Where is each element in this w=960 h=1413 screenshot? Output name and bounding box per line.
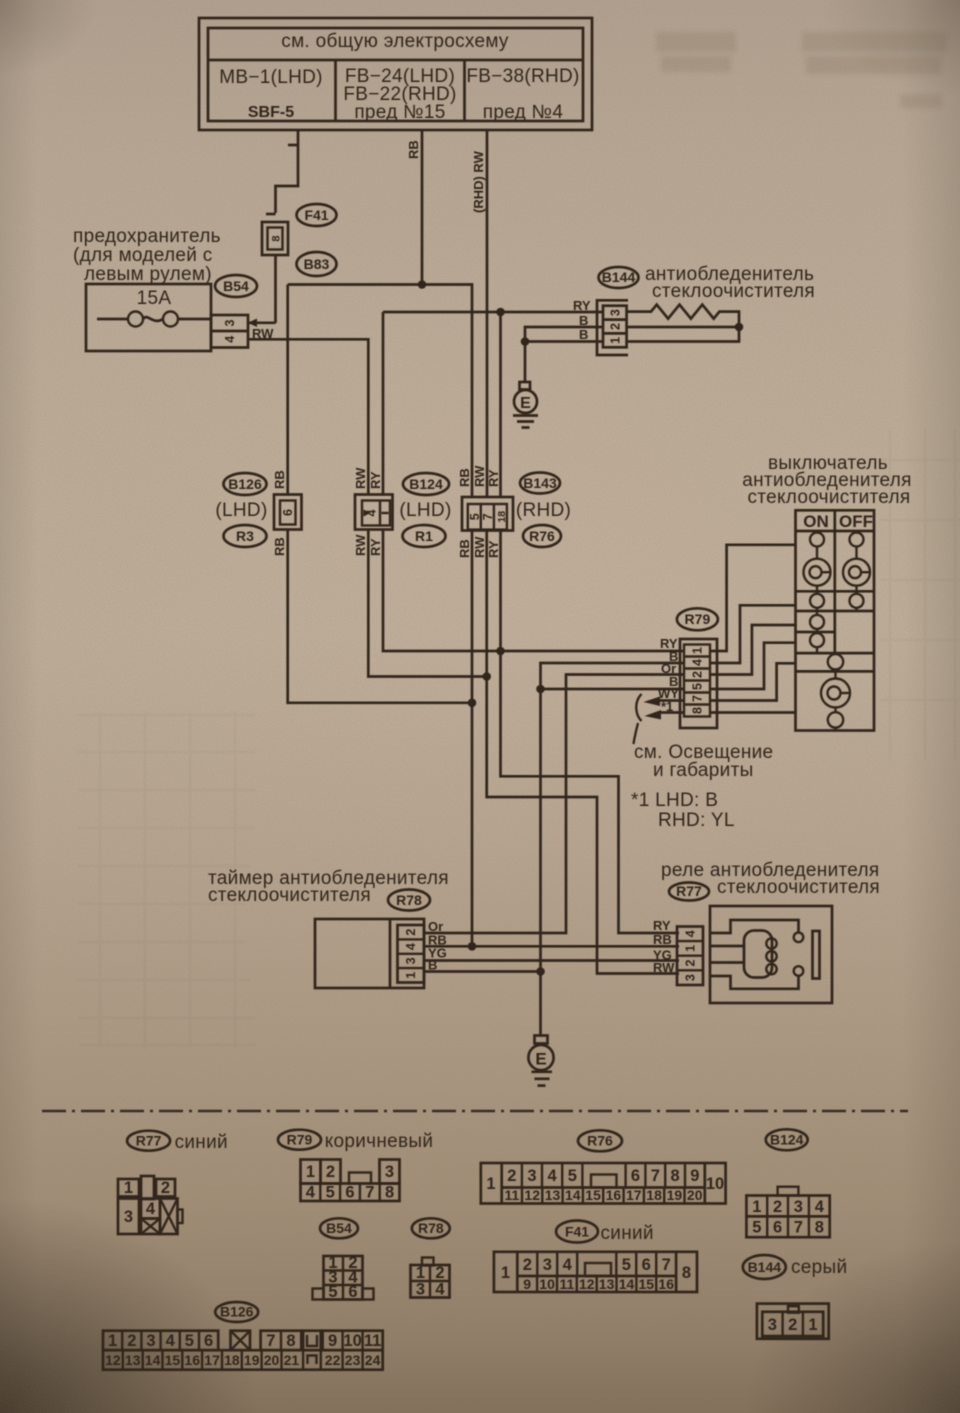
svg-text:RHD: YL: RHD: YL [658, 810, 735, 831]
svg-text:B144: B144 [602, 269, 636, 285]
svg-text:9: 9 [690, 1167, 699, 1185]
svg-text:5: 5 [185, 1332, 194, 1350]
svg-text:R78: R78 [418, 1220, 444, 1236]
svg-text:10: 10 [539, 1276, 555, 1292]
connector B124 pins [353, 467, 393, 556]
connector oval R3 [224, 525, 267, 547]
svg-text:3: 3 [608, 309, 622, 316]
svg-text:1: 1 [808, 1316, 817, 1334]
svg-text:(RHD): (RHD) [516, 500, 571, 521]
svg-text:см. общую электросхему: см. общую электросхему [281, 31, 509, 52]
connector oval B83 [297, 252, 337, 276]
svg-text:RB: RB [272, 537, 287, 556]
connector oval R78 [388, 890, 430, 911]
svg-text:F41: F41 [565, 1224, 589, 1240]
svg-text:RB: RB [272, 470, 287, 489]
svg-text:R79: R79 [685, 611, 711, 627]
svg-text:13: 13 [599, 1276, 615, 1292]
svg-text:RY: RY [573, 298, 591, 313]
svg-text:11: 11 [559, 1276, 574, 1292]
svg-text:ON: ON [803, 512, 829, 531]
wire R79 pin4 B down [541, 663, 685, 689]
svg-text:7: 7 [651, 1167, 660, 1185]
svg-text:R79: R79 [287, 1132, 313, 1148]
svg-text:8: 8 [691, 707, 705, 714]
svg-text:1: 1 [486, 1175, 495, 1193]
svg-text:13: 13 [545, 1187, 561, 1203]
svg-text:RB: RB [457, 539, 472, 558]
svg-text:1: 1 [306, 1163, 315, 1181]
svg-text:12: 12 [524, 1187, 540, 1203]
svg-text:1: 1 [691, 647, 705, 654]
svg-text:3: 3 [223, 319, 237, 326]
svg-text:4: 4 [563, 1256, 573, 1274]
svg-text:B143: B143 [523, 475, 557, 491]
svg-text:RY: RY [653, 918, 671, 933]
connector oval B143 [520, 473, 560, 494]
connector B143 pins [457, 465, 513, 558]
connector oval B126 (legend) [215, 1302, 258, 1322]
svg-text:11: 11 [504, 1187, 519, 1203]
svg-text:21: 21 [284, 1352, 300, 1368]
svg-text:B144: B144 [748, 1259, 782, 1275]
svg-text:6: 6 [281, 509, 295, 516]
wiper deicer title [645, 264, 815, 302]
ground E lower [528, 1036, 553, 1086]
svg-text:3: 3 [684, 974, 698, 981]
svg-text:коричневый: коричневый [325, 1131, 434, 1152]
svg-text:RY: RY [368, 538, 383, 556]
svg-text:(RHD) RW: (RHD) RW [471, 150, 486, 213]
svg-text:8: 8 [385, 1184, 394, 1202]
switch contacts ON column [804, 533, 831, 654]
svg-text:9: 9 [328, 1332, 337, 1350]
connector oval B124 (legend) [766, 1129, 808, 1150]
svg-text:B124: B124 [409, 476, 443, 492]
svg-text:15A: 15A [137, 288, 172, 309]
connector oval R76 [523, 525, 561, 547]
svg-text:левым рулем): левым рулем) [84, 264, 212, 285]
svg-text:RB: RB [653, 932, 672, 947]
svg-text:15: 15 [165, 1352, 181, 1368]
connector B126 pin 6 [272, 470, 302, 556]
svg-text:B126: B126 [228, 476, 262, 492]
svg-text:RW: RW [472, 536, 487, 558]
svg-text:16: 16 [184, 1352, 200, 1368]
connector B124 pinout [746, 1187, 829, 1238]
svg-text:B54: B54 [326, 1220, 352, 1236]
svg-text:RY: RY [486, 540, 501, 558]
svg-text:синий: синий [601, 1223, 654, 1244]
svg-text:3: 3 [543, 1256, 552, 1274]
circuit breaker (F41/B83) [262, 222, 288, 323]
connector oval R79 [677, 608, 718, 630]
connector oval B124 [403, 473, 449, 495]
svg-text:4: 4 [223, 336, 237, 343]
connector oval R77 (legend) [127, 1131, 170, 1151]
svg-text:серый: серый [791, 1257, 847, 1278]
svg-text:стеклоочистителя: стеклоочистителя [652, 281, 815, 302]
connector R79 pinout [301, 1160, 400, 1202]
svg-text:6: 6 [204, 1332, 213, 1350]
svg-text:24: 24 [365, 1352, 381, 1368]
wire R79 pin7 WY to lighting [644, 697, 685, 707]
svg-text:10: 10 [706, 1175, 724, 1193]
svg-text:6: 6 [642, 1256, 651, 1274]
connector R76 pinout [481, 1163, 726, 1204]
svg-text:стеклоочистителя: стеклоочистителя [717, 877, 880, 898]
connector oval R77 [669, 883, 709, 901]
svg-text:5: 5 [691, 683, 705, 690]
svg-text:RY: RY [486, 469, 501, 487]
svg-text:пред №15: пред №15 [354, 102, 445, 123]
wire RB from FB-24 column [406, 130, 422, 285]
svg-text:F41: F41 [304, 207, 328, 223]
svg-text:6: 6 [345, 1184, 354, 1202]
ground E upper [513, 382, 538, 428]
connector B126 pinout [103, 1331, 383, 1370]
svg-text:3: 3 [527, 1167, 536, 1185]
svg-text:(LHD): (LHD) [399, 500, 451, 521]
svg-text:*1 LHD: B: *1 LHD: B [631, 790, 718, 811]
svg-text:3: 3 [768, 1316, 777, 1334]
wire B126 RB down [288, 530, 472, 703]
svg-text:1: 1 [404, 972, 418, 979]
svg-text:14: 14 [619, 1276, 635, 1292]
svg-text:3: 3 [385, 1163, 394, 1181]
power source reference box [199, 18, 592, 130]
relay wire labels [653, 918, 675, 975]
svg-text:2: 2 [608, 323, 622, 330]
svg-text:16: 16 [658, 1276, 674, 1292]
svg-text:(LHD): (LHD) [215, 500, 267, 521]
svg-text:7: 7 [266, 1332, 275, 1350]
svg-text:8: 8 [671, 1167, 680, 1185]
svg-text:7: 7 [794, 1219, 803, 1237]
connector oval F41 [297, 204, 337, 226]
R79 to switch staircase wires [710, 545, 796, 713]
svg-text:RB: RB [406, 140, 421, 159]
switch contacts OFF column [843, 533, 870, 612]
connector oval B54 (legend) [320, 1218, 358, 1238]
deicer heater resistor [627, 305, 744, 342]
svg-text:1: 1 [108, 1332, 117, 1350]
relay R77 connector pins [677, 927, 703, 986]
wire R79 pin8 *1 to lighting [645, 710, 685, 720]
svg-text:23: 23 [345, 1352, 361, 1368]
svg-text:20: 20 [264, 1352, 280, 1368]
wire timer RB to relay [424, 945, 679, 948]
svg-text:4: 4 [146, 1200, 156, 1218]
svg-text:17: 17 [204, 1352, 220, 1368]
svg-text:3: 3 [416, 1281, 425, 1299]
svg-text:синий: синий [175, 1132, 228, 1153]
svg-text:9: 9 [523, 1276, 531, 1292]
svg-text:B124: B124 [770, 1132, 804, 1148]
svg-text:OFF: OFF [839, 512, 873, 531]
svg-text:12: 12 [579, 1276, 595, 1292]
svg-text:5: 5 [568, 1167, 577, 1185]
svg-text:12: 12 [105, 1352, 121, 1368]
svg-text:5: 5 [326, 1184, 335, 1202]
svg-text:3: 3 [146, 1332, 155, 1350]
svg-text:1: 1 [684, 945, 698, 952]
svg-text:и габариты: и габариты [653, 760, 754, 781]
svg-text:B54: B54 [223, 278, 249, 294]
svg-text:RB: RB [457, 468, 472, 487]
connector oval F41 (legend) [556, 1221, 598, 1243]
svg-text:R76: R76 [529, 528, 555, 544]
*1 note [631, 790, 735, 831]
wire B54 pin4 RW down to B124 [248, 339, 368, 494]
svg-text:B126: B126 [220, 1304, 254, 1320]
wire timer YG to relay [424, 959, 679, 962]
svg-text:1: 1 [416, 1264, 425, 1282]
svg-text:R77: R77 [136, 1133, 162, 1149]
connector oval B144 [599, 267, 639, 288]
svg-text:15: 15 [639, 1276, 655, 1292]
svg-text:6: 6 [348, 1283, 357, 1301]
wiper deicer timer R78 body [315, 919, 424, 988]
wire (RHD) RW from FB-38 column [471, 130, 487, 497]
svg-text:R76: R76 [587, 1133, 613, 1149]
svg-text:3: 3 [404, 957, 418, 964]
fuse 15A [86, 284, 211, 351]
svg-text:14: 14 [145, 1352, 161, 1368]
svg-text:4: 4 [691, 659, 705, 666]
svg-text:11: 11 [364, 1332, 381, 1350]
svg-text:8: 8 [286, 1332, 295, 1350]
connector oval R1 [403, 525, 446, 547]
svg-text:2: 2 [161, 1179, 170, 1197]
svg-text:B83: B83 [304, 256, 330, 272]
connector R79 pins [680, 639, 717, 728]
RY rail to B144 [383, 308, 603, 497]
svg-text:20: 20 [687, 1187, 703, 1203]
fuse 15A (LHD) label text [73, 226, 221, 285]
svg-text:1: 1 [608, 337, 622, 344]
svg-text:13: 13 [125, 1352, 141, 1368]
svg-text:4: 4 [166, 1332, 176, 1350]
RB rail [288, 280, 472, 497]
wire B143 RW down then to relay [482, 531, 679, 974]
svg-text:(для моделей с: (для моделей с [73, 245, 213, 266]
svg-text:5: 5 [328, 1283, 337, 1301]
svg-text:3: 3 [124, 1208, 133, 1226]
svg-text:4: 4 [548, 1167, 558, 1185]
svg-text:RW: RW [353, 467, 368, 489]
relay R77 body [710, 906, 832, 1003]
svg-text:2: 2 [684, 959, 698, 966]
svg-text:18: 18 [496, 511, 508, 523]
svg-text:SBF-5: SBF-5 [248, 104, 294, 121]
wire timer B to ground [424, 967, 545, 1035]
svg-text:5: 5 [468, 513, 482, 520]
svg-text:RW: RW [653, 960, 675, 975]
connector R78 pinout [411, 1258, 450, 1299]
svg-text:FB−38(RHD): FB−38(RHD) [466, 66, 579, 87]
wire B143 RY down joining RY rail [496, 531, 679, 934]
svg-text:MB−1(LHD): MB−1(LHD) [219, 67, 323, 88]
wiper deicer timer title [208, 868, 449, 906]
svg-text:R78: R78 [396, 892, 422, 908]
svg-text:4: 4 [435, 1281, 445, 1299]
svg-text:2: 2 [523, 1256, 532, 1274]
connector oval R79 (legend) [278, 1130, 321, 1150]
svg-text:16: 16 [606, 1187, 622, 1203]
svg-text:8: 8 [815, 1219, 824, 1237]
wire B54 pin3 RW to breaker [248, 319, 276, 342]
svg-text:19: 19 [667, 1187, 683, 1203]
wiper deicer B144 connector [573, 298, 628, 355]
svg-text:18: 18 [224, 1352, 240, 1368]
connector oval B144 (legend) [743, 1255, 786, 1279]
svg-text:пред №4: пред №4 [483, 102, 564, 123]
svg-text:RY: RY [368, 471, 383, 489]
svg-text:RW: RW [353, 534, 368, 556]
faint bleedthrough (decorative) [656, 32, 947, 108]
svg-text:2: 2 [435, 1264, 444, 1282]
svg-text:19: 19 [244, 1352, 260, 1368]
svg-text:R77: R77 [676, 883, 702, 899]
connector B54 pinout [313, 1254, 374, 1301]
svg-text:1: 1 [124, 1179, 133, 1197]
svg-text:6: 6 [631, 1167, 640, 1185]
connector B54 pins 3/4 [211, 315, 248, 348]
svg-text:8: 8 [271, 235, 283, 241]
svg-text:4: 4 [306, 1184, 316, 1202]
wire B124 RW down [368, 530, 486, 677]
svg-text:E: E [520, 395, 531, 412]
svg-text:стеклоочистителя: стеклоочистителя [208, 885, 371, 906]
connector oval B126 [224, 473, 267, 495]
svg-text:B: B [579, 327, 588, 342]
see Lighting note [634, 742, 773, 781]
svg-text:10: 10 [343, 1332, 361, 1350]
connector oval R76 (legend) [578, 1130, 622, 1151]
wire B124 RY down [383, 530, 684, 652]
svg-text:15: 15 [585, 1187, 601, 1203]
svg-text:7: 7 [365, 1184, 374, 1202]
wire R79 pin2 Or down to timer [424, 675, 684, 934]
connector oval B54 [215, 275, 257, 297]
bracket and leader to lighting note [634, 694, 642, 744]
connector F41 pinout [494, 1252, 697, 1292]
wires B144 pins 1/2 to ground [521, 327, 603, 382]
svg-text:4: 4 [684, 930, 698, 937]
svg-text:14: 14 [565, 1187, 581, 1203]
wire B143 RB down [468, 531, 477, 951]
connector R77 pinout [118, 1176, 183, 1234]
svg-text:2: 2 [773, 1198, 782, 1216]
wire from MB-1 to circuit breaker [266, 130, 298, 214]
svg-text:1: 1 [501, 1264, 510, 1282]
svg-text:2: 2 [404, 929, 418, 936]
svg-text:1: 1 [752, 1198, 761, 1216]
svg-text:4: 4 [815, 1198, 825, 1216]
svg-text:7: 7 [662, 1256, 671, 1274]
svg-text:2: 2 [326, 1163, 335, 1181]
connector oval R78 (legend) [412, 1218, 450, 1238]
wire R79 pin5 B down to ground net [536, 685, 684, 972]
svg-text:предохранитель: предохранитель [73, 226, 221, 247]
timer wire labels [428, 919, 447, 973]
svg-text:E: E [535, 1050, 546, 1069]
svg-text:стеклоочистителя: стеклоочистителя [747, 487, 910, 508]
svg-text:4: 4 [404, 943, 418, 950]
svg-text:5: 5 [752, 1219, 761, 1237]
R79 wire color labels [658, 636, 679, 714]
svg-text:2: 2 [127, 1332, 136, 1350]
svg-text:3: 3 [794, 1198, 803, 1216]
svg-text:17: 17 [626, 1187, 642, 1203]
connector B144 pinout [757, 1304, 829, 1339]
svg-text:2: 2 [691, 671, 705, 678]
svg-text:18: 18 [646, 1187, 662, 1203]
svg-text:5: 5 [622, 1256, 631, 1274]
svg-text:2: 2 [788, 1316, 797, 1334]
wiper deicer relay title [661, 860, 880, 898]
svg-text:8: 8 [682, 1264, 691, 1282]
switch middle illumination contacts [821, 653, 850, 730]
wiper deicer switch body [796, 510, 875, 730]
svg-text:22: 22 [325, 1352, 341, 1368]
svg-text:6: 6 [773, 1219, 782, 1237]
svg-text:7: 7 [481, 513, 495, 520]
svg-text:R1: R1 [415, 528, 433, 544]
divider dash-dot line [42, 1110, 908, 1113]
svg-text:R3: R3 [236, 528, 254, 544]
svg-text:2: 2 [507, 1167, 516, 1185]
svg-text:RW: RW [472, 465, 487, 487]
wiper deicer switch title [742, 453, 912, 508]
svg-text:7: 7 [691, 695, 705, 702]
